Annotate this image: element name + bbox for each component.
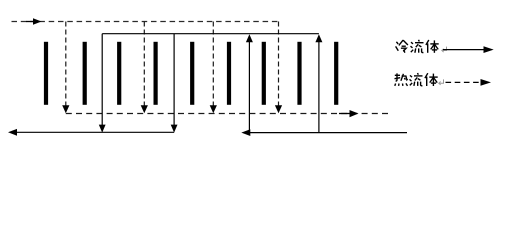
plate 8 [297, 42, 301, 105]
plate 9 [334, 42, 338, 105]
冷 [396, 40, 408, 53]
paragraph mark after 冷流体 [442, 47, 447, 53]
体 (row1) [426, 40, 439, 53]
体 (row2) [425, 73, 438, 86]
流 (row2) [410, 73, 423, 86]
hot fluid top dashed header line [12, 21, 279, 23]
hot fluid bottom dashed collector line [66, 113, 392, 115]
paragraph mark after 热流体 [439, 79, 444, 85]
hot fluid outlet arrow [339, 110, 359, 117]
legend text "冷流体" drawn as strokes [396, 40, 439, 53]
hot fluid inlet arrow [26, 18, 42, 25]
plate 4 [154, 42, 158, 105]
plate 7 [262, 42, 266, 105]
cold fluid top solid header [102, 33, 319, 35]
cold fluid inlet line B [241, 129, 407, 136]
热 [395, 73, 408, 86]
cold down-leg 1 [99, 34, 106, 133]
cold down-leg 2 [171, 34, 178, 133]
cold fluid outlet line A [8, 129, 174, 136]
plate 3 [117, 42, 121, 105]
legend text "热流体" drawn as strokes [395, 73, 438, 86]
hot channel drop 2 [141, 22, 148, 114]
hot channel drop 1 [62, 22, 69, 114]
cold up-leg 2 [315, 34, 322, 132]
hot fluid legend dashed arrow [446, 79, 492, 86]
hot channel drop 4 [275, 22, 282, 114]
cold up-leg 1 [246, 34, 253, 132]
cold fluid legend solid arrow [443, 46, 494, 53]
plate 2 [83, 42, 87, 105]
plate 6 [227, 42, 231, 105]
hot channel drop 3 [210, 22, 217, 114]
plate 5 [190, 42, 194, 105]
流 (row1) [411, 40, 424, 53]
plate 1 [44, 42, 48, 105]
